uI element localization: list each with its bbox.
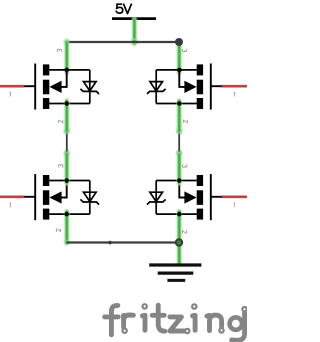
wire green: to Q4 drain (right mid lower) — [177, 154, 182, 183]
transistor Q3 (bottom-left N-MOSFET) with body diode D3 — [0, 174, 99, 220]
junction dot Q1 drain — [64, 68, 69, 73]
pin label 3 Q3 — [59, 165, 63, 168]
logo letter i 1 — [142, 315, 145, 330]
substrate arrow Q3 — [49, 191, 61, 203]
junction dot Q4 drain — [177, 178, 182, 183]
body diode D2 zener bar — [147, 89, 166, 94]
gate plate Q1 — [34, 64, 36, 110]
wire bottom rail (black) — [67, 241, 179, 243]
wire black mid-right segment — [178, 131, 180, 153]
body diode D3 zener bar — [80, 199, 99, 204]
bendpoint caps right mid — [176, 128, 182, 156]
wire green: Q3 source to bottom rail — [64, 212, 69, 243]
wire 5V feed (green) — [132, 20, 137, 44]
junction dot Q4 source — [177, 212, 182, 217]
body connection Q2 — [179, 70, 185, 87]
wire green: to Q3 drain (left mid lower) — [64, 154, 69, 183]
body connection Q4 — [179, 181, 185, 198]
pin label 1 Q2 — [233, 92, 236, 96]
junction dot Q1 source — [64, 101, 69, 106]
logo letter i 2 — [193, 315, 196, 330]
junction dot Q2 drain — [177, 68, 182, 73]
pin label 2 Q4 — [183, 231, 187, 234]
junction big dot top right — [175, 38, 183, 46]
diode branch vertical Q4 — [155, 181, 157, 215]
substrate arrow Q2 — [184, 81, 196, 93]
wire end cap 5V feed at rail — [131, 38, 137, 44]
bendpoint dot bottom rail — [108, 241, 112, 245]
wire green: rail to Q1 drain — [64, 42, 69, 72]
fritzing logo — [105, 304, 247, 340]
wire red gate input Q1 — [0, 85, 25, 88]
wire red gate input Q3 — [0, 195, 25, 198]
wire red gate input Q4 — [221, 195, 247, 198]
source lead Q4 — [156, 213, 197, 215]
gate lead Q2 — [212, 85, 222, 87]
diode branch vertical Q3 — [89, 181, 91, 215]
pin label 3 Q4 — [183, 165, 187, 168]
transistor Q2 (top-right N-MOSFET) with body diode D2 — [147, 64, 247, 110]
channel bars Q1 — [43, 64, 49, 109]
wire green: Q1 source down (left mid upper) — [64, 101, 69, 131]
gate plate Q2 — [210, 64, 212, 110]
junction dots overlay (pads over green wires) — [64, 101, 181, 216]
channel bars Q3 — [43, 175, 49, 220]
drain lead Q1 — [49, 69, 90, 71]
diode branch vertical Q1 — [89, 70, 91, 104]
wire black mid-left segment — [66, 131, 68, 153]
channel bars Q4 — [197, 175, 203, 220]
source lead Q1 — [49, 103, 90, 105]
body diode D3 triangle — [84, 192, 97, 201]
wire top rail (black) — [67, 41, 179, 43]
body connection Q3 — [61, 181, 67, 198]
channel bars Q2 — [197, 64, 203, 109]
junction big dot bottom right — [175, 238, 183, 246]
wire end cap top-left corner — [64, 39, 70, 45]
wire green: Q4 source to bottom rail — [177, 212, 182, 243]
body connection Q1 — [61, 70, 67, 87]
logo letter z — [170, 317, 184, 331]
body diode D1 zener bar — [80, 89, 99, 94]
gate plate Q3 — [34, 174, 36, 220]
gate lead Q3 — [24, 196, 34, 198]
drain lead Q2 — [156, 69, 197, 71]
body diode D4 triangle — [150, 192, 163, 201]
body diode D2 triangle — [150, 82, 163, 91]
pin label 1 Q4 — [233, 203, 236, 207]
transistor Q1 (top-left N-MOSFET) with body diode D1 — [0, 64, 99, 110]
wire green: Q2 source down (right mid upper) — [177, 101, 182, 131]
pin label 2 Q2 — [183, 120, 187, 123]
pin label 1 Q3 — [9, 203, 12, 207]
wire red gate input Q2 — [221, 85, 247, 88]
junction dot Q3 source — [64, 212, 69, 217]
substrate arrow Q1 — [49, 81, 61, 93]
gate lead Q1 — [24, 85, 34, 87]
pin label 3 Q2 — [182, 49, 186, 52]
body diode D4 zener bar — [147, 199, 166, 204]
transistor Q4 (bottom-right N-MOSFET) with body diode D4 — [147, 174, 247, 220]
pin label 3 Q1 — [57, 49, 61, 52]
substrate arrow Q4 — [184, 191, 196, 203]
bendpoint caps left mid — [64, 128, 70, 156]
logo letter n — [207, 315, 222, 331]
drain lead Q4 — [156, 180, 197, 182]
wire green: rail to ground — [177, 243, 182, 264]
logo letter r — [121, 315, 126, 327]
drain lead Q3 — [49, 180, 90, 182]
junction dot Q2 source — [177, 101, 182, 106]
source lead Q3 — [49, 213, 90, 215]
pin label 2 Q1 — [59, 120, 63, 123]
source lead Q2 — [156, 103, 197, 105]
gate lead Q4 — [212, 196, 222, 198]
power symbol 5V — [112, 4, 156, 19]
junction dot Q3 drain — [64, 178, 69, 183]
logo letter f — [111, 305, 118, 334]
label 5V — [116, 4, 131, 14]
logo letter g — [230, 317, 242, 329]
pin label 1 Q1 — [9, 92, 12, 96]
ground — [149, 265, 201, 280]
body diode D1 triangle — [84, 82, 97, 91]
gate plate Q4 — [210, 174, 212, 220]
pin label 2 Q3 — [56, 229, 60, 232]
diode branch vertical Q2 — [155, 70, 157, 104]
wire green: big dot to Q2 drain — [177, 42, 182, 72]
wire end cap bottom-left corner — [64, 240, 69, 245]
logo letter t — [158, 305, 165, 331]
